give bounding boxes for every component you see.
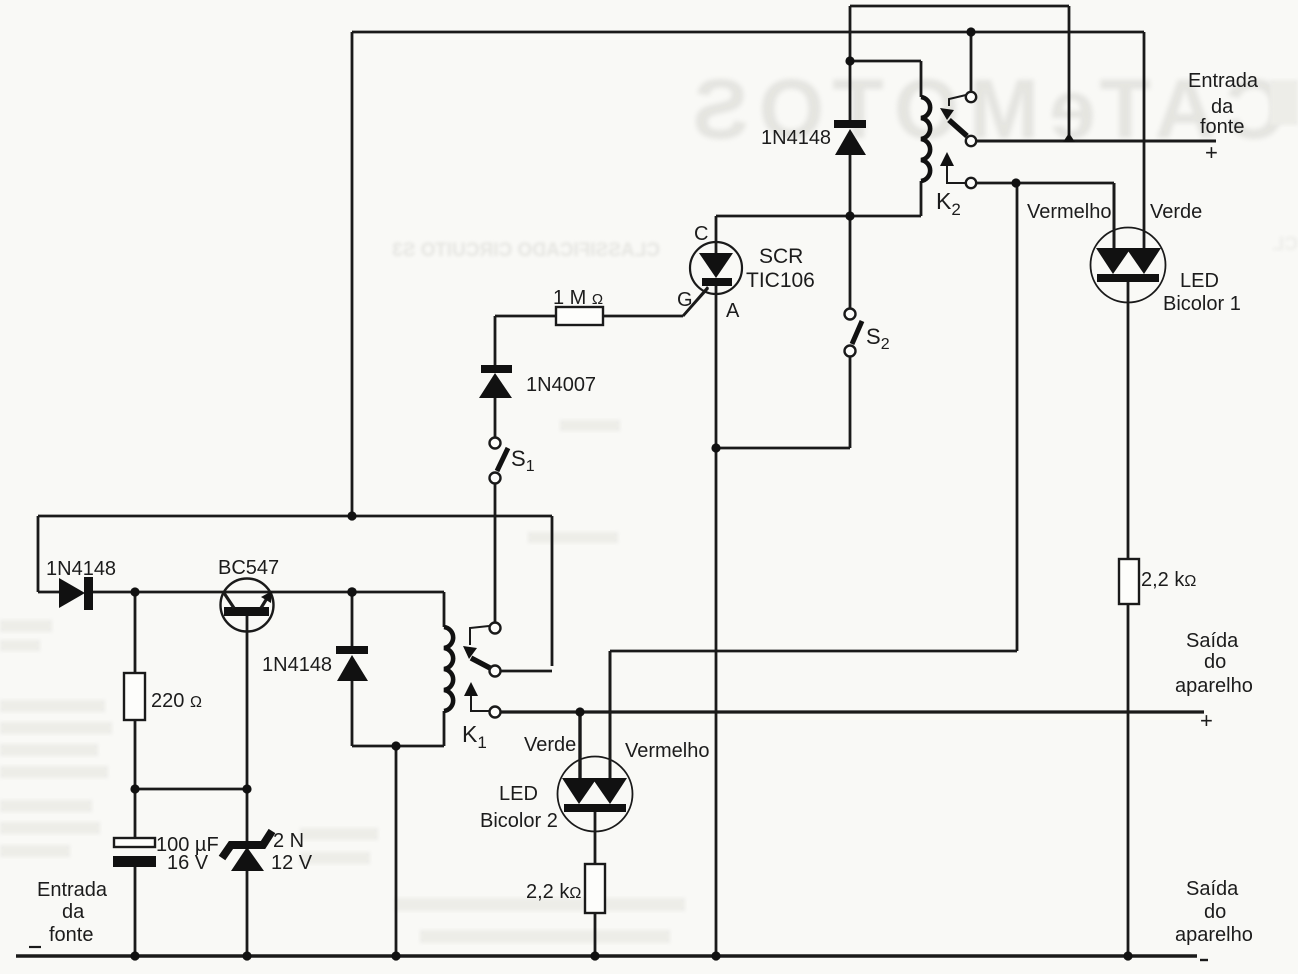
svg-text:fonte: fonte: [49, 924, 93, 946]
wire entrada fonte minus tick: [29, 946, 41, 948]
svg-text:1 M Ω: 1 M Ω: [553, 287, 603, 309]
wire K2 box bottom: [850, 215, 921, 218]
svg-text:SCR: SCR: [759, 245, 803, 268]
junction node K2 NO / x1017: [1011, 178, 1020, 187]
resistor R1 220 ohm: [124, 673, 145, 720]
svg-text:1N4148: 1N4148: [262, 654, 332, 676]
svg-text:do: do: [1204, 651, 1226, 673]
relay K2 common contact: [966, 92, 976, 102]
wire left loop vertical: [351, 32, 354, 516]
svg-text:CL: CL: [1272, 234, 1298, 255]
wire K1 box right lower: [443, 711, 446, 746]
wire K2 common contact riser: [970, 32, 973, 92]
svg-text:Vermelho: Vermelho: [625, 740, 710, 762]
svg-text:1N4148: 1N4148: [46, 558, 116, 580]
wire left drop to diode D1: [37, 516, 40, 592]
svg-text:LED: LED: [499, 783, 538, 805]
SCR U1 TIC106: [683, 242, 742, 316]
wire top loop horizontal: [850, 5, 1069, 8]
svg-text:LED: LED: [1180, 270, 1219, 292]
relay K2 armature arrowhead: [940, 108, 954, 120]
resistor R2 1 Mohm: [556, 307, 603, 325]
svg-text:2,2 kΩ: 2,2 kΩ: [1141, 569, 1196, 591]
junction node zener / base: [242, 784, 251, 793]
wire K2 NO vertical x=1017: [1016, 183, 1019, 651]
junction node base rail / R1: [130, 587, 139, 596]
wire BC547 base lead down to zener: [246, 616, 249, 843]
wire 220 ohm upper lead: [134, 592, 137, 673]
wire entrada da fonte +: [976, 140, 1216, 143]
wire 1N4007 cathode lead: [494, 316, 497, 366]
svg-text:Verde: Verde: [524, 734, 576, 756]
wire SCR cathode entry: [715, 216, 718, 255]
wire base rail y=592 left: [38, 591, 60, 594]
relay K1 armature arrowhead: [463, 646, 477, 659]
wire LED2 verde lead: [578, 712, 581, 781]
svg-text:2 N: 2 N: [273, 830, 304, 852]
wire K2 box top: [850, 60, 921, 63]
wire 1N4007 anode to S1: [494, 398, 497, 438]
junction node SCR cathode / D3 / S2: [845, 211, 854, 220]
wire node y=789: [135, 788, 247, 791]
wire LED1 cathode to resistor: [1127, 281, 1130, 559]
svg-text:C: C: [694, 223, 708, 245]
junction node rail / zener: [242, 951, 251, 960]
junction node K2 box top: [845, 56, 854, 65]
svg-text:G: G: [677, 289, 693, 311]
svg-text:A: A: [726, 300, 740, 322]
relay K2 NC contact: [966, 136, 976, 146]
relay K1 common contact: [490, 623, 501, 634]
transistor Q1 BC547: [221, 579, 274, 632]
relay K2 armature arm: [949, 120, 967, 136]
svg-text:aparelho: aparelho: [1175, 924, 1253, 946]
wire S2 to SCR anode node: [716, 447, 850, 450]
wire K1 NC contact stub: [500, 670, 552, 673]
junction node rail / R3: [590, 951, 599, 960]
wire K2 coil top / diode D3 cathode vertical: [849, 6, 852, 121]
diode D2 1N4148 (parallel with K1 coil): [336, 646, 368, 681]
wire gate resistor run: [495, 315, 683, 318]
junction node rail / K1 return: [391, 951, 400, 960]
capacitor C1 100uF 16V: [113, 838, 156, 867]
wire K1 coil return to rail: [395, 746, 398, 956]
svg-text:da: da: [62, 901, 85, 923]
junction node K2 common on top net: [966, 27, 975, 36]
svg-text:aparelho: aparelho: [1175, 675, 1253, 697]
wire K1 box right upper: [443, 592, 446, 627]
wire zener anode to rail: [246, 871, 249, 956]
junction node R1 / C1: [130, 784, 139, 793]
wire S1 to K1 common contact: [494, 484, 497, 622]
relay K1 coil: [444, 627, 453, 711]
relay K2 armature hook: [949, 95, 966, 106]
resistor R4 2.2k: [1119, 559, 1139, 604]
wire latch feed horizontal y=516: [38, 515, 552, 518]
wire SCR cathode to node: [716, 215, 850, 218]
zener diode Z1 12V: [222, 831, 272, 871]
svg-text:12 V: 12 V: [271, 852, 313, 874]
wire S2 upper lead: [849, 216, 852, 309]
wire K2 coil lower lead: [920, 181, 923, 216]
LED bicolor 1: [1091, 228, 1166, 303]
wire saida do aparelho +: [500, 710, 1204, 713]
wire 220 ohm lower lead / cap top lead: [134, 720, 137, 838]
wire cap bottom lead: [134, 866, 137, 956]
svg-text:Entrada: Entrada: [1188, 70, 1259, 92]
wire K2 coil upper lead: [920, 61, 923, 97]
junction node SCR anode / S2: [711, 443, 720, 452]
svg-text:Entrada: Entrada: [37, 879, 108, 901]
svg-text:TIC106: TIC106: [746, 269, 815, 292]
wire LED2 vermelho lead: [609, 651, 612, 781]
relay K1 armature hook: [470, 626, 489, 645]
wire K2 NO contact stub: [976, 182, 1114, 185]
relay K2 actuation arrow: [940, 152, 966, 183]
LED bicolor 2: [558, 757, 633, 832]
wire K2 NO to LED2 horizontal y=651: [610, 650, 1017, 653]
wire diode D2 cathode lead: [351, 592, 354, 648]
wire LED2 cathode to resistor: [594, 811, 597, 864]
svg-text:CLASSIFICADO CIRCUITO S3: CLASSIFICADO CIRCUITO S3: [392, 240, 660, 261]
svg-text:2,2 kΩ: 2,2 kΩ: [526, 881, 581, 903]
junction node rail / C1: [130, 951, 139, 960]
svg-text:Bicolor 1: Bicolor 1: [1163, 293, 1241, 315]
junction node rail / SCR anode: [711, 951, 720, 960]
junction node saida+ / LED2 verde: [575, 707, 584, 716]
svg-text:Saída: Saída: [1186, 630, 1239, 652]
junction node entrada+ / top loop: [1063, 133, 1075, 142]
diode D1 1N4148 (horizontal, left): [59, 577, 93, 610]
junction node base rail / D2: [347, 587, 357, 597]
junction node loop / latch wire: [347, 511, 356, 520]
svg-text:da: da: [1211, 96, 1234, 118]
relay K1 actuation arrow: [464, 682, 489, 711]
junction node K1 coil return: [391, 741, 400, 750]
wire gate diagonal: [683, 288, 708, 316]
wire K1 box bottom: [352, 745, 444, 748]
svg-text:do: do: [1204, 901, 1226, 923]
wire resistor R3 to rail: [594, 913, 597, 956]
svg-text:BC547: BC547: [218, 557, 279, 579]
junction node rail / R4: [1123, 951, 1132, 960]
svg-text:Saída: Saída: [1186, 878, 1239, 900]
svg-text:fonte: fonte: [1200, 116, 1244, 138]
wire saida minus tick: [1200, 959, 1208, 961]
svg-text:+: +: [1205, 140, 1218, 165]
svg-text:+: +: [1200, 708, 1213, 733]
wire LED1 vermelho lead: [1113, 183, 1116, 250]
svg-text:16 V: 16 V: [167, 852, 209, 874]
svg-text:Verde: Verde: [1150, 201, 1202, 223]
wire LED1 verde lead: [1143, 32, 1146, 250]
resistor R3 2.2k: [585, 864, 605, 913]
diode D4 1N4007: [479, 365, 512, 398]
relay K1 armature arm: [471, 658, 490, 668]
wire vertical x=1069 to +fonte line: [1068, 6, 1071, 139]
switch S1: [490, 438, 509, 484]
svg-text:1N4007: 1N4007: [526, 374, 596, 396]
switch S2: [845, 309, 863, 357]
wire base rail y=592 main: [92, 591, 444, 594]
svg-text:220 Ω: 220 Ω: [151, 690, 202, 712]
wire bottom negative rail: [16, 954, 1197, 958]
wire S2 lower lead: [849, 356, 852, 448]
wire K1 NC contact riser: [551, 516, 554, 666]
svg-text:Vermelho: Vermelho: [1027, 201, 1112, 223]
diode D3 1N4148 (parallel with K2 coil): [834, 120, 866, 155]
svg-text:Bicolor 2: Bicolor 2: [480, 810, 558, 832]
relay K2 NO contact: [966, 178, 976, 188]
svg-text:1N4148: 1N4148: [761, 127, 831, 149]
relay K2 coil: [921, 97, 930, 181]
wire diode D2 anode lead: [351, 680, 354, 746]
wire resistor R4 to rail: [1127, 603, 1130, 956]
wire diode D3 anode lead: [849, 154, 852, 216]
wire SCR anode long vertical to rail: [715, 283, 718, 956]
relay K1 NO contact: [490, 707, 501, 718]
relay K1 NC contact: [490, 666, 501, 677]
wire long top horizontal net: [352, 31, 1144, 34]
